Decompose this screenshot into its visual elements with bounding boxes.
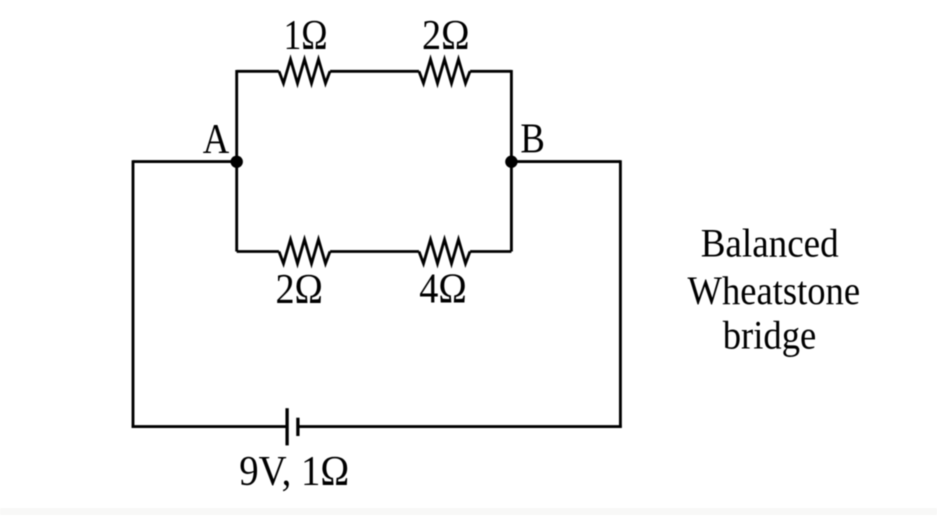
battery V1 short plate <box>296 418 299 436</box>
svg-text:B: B <box>520 117 545 163</box>
svg-text:Balanced: Balanced <box>701 221 839 266</box>
svg-text:bridge: bridge <box>723 312 817 357</box>
svg-text:A: A <box>203 117 230 163</box>
svg-text:1Ω: 1Ω <box>284 13 328 59</box>
resistor R1 1ohm zigzag <box>279 59 330 83</box>
resistor R4 4ohm zigzag <box>419 240 470 264</box>
wire inner right vertical <box>510 70 513 252</box>
svg-text:9V, 1Ω: 9V, 1Ω <box>239 449 349 495</box>
wire bottom rail middle segment <box>330 250 419 253</box>
wire outer left vertical <box>132 160 135 428</box>
wire outer right vertical <box>619 160 622 428</box>
wire top rail right segment <box>470 70 511 73</box>
wire top rail middle segment <box>330 70 419 73</box>
battery V1 long plate <box>285 408 288 445</box>
node A junction dot <box>231 156 243 168</box>
wire bottom rail left segment <box>237 250 279 253</box>
wire outer bottom left of battery <box>132 425 287 428</box>
node B junction dot <box>505 156 517 168</box>
wire bottom rail right segment <box>470 250 511 253</box>
svg-text:Wheatstone: Wheatstone <box>688 268 861 313</box>
wire node B to outer right <box>511 160 620 163</box>
resistor R3 2ohm zigzag <box>279 240 330 264</box>
wire top rail left segment <box>237 70 279 73</box>
svg-text:2Ω: 2Ω <box>422 13 470 59</box>
faint bottom artifact band <box>0 508 937 515</box>
svg-text:4Ω: 4Ω <box>419 267 467 313</box>
wire node A to outer left <box>133 160 237 163</box>
resistor R2 2ohm zigzag <box>419 59 470 83</box>
svg-text:2Ω: 2Ω <box>275 267 323 313</box>
wire outer bottom right of battery <box>298 425 622 428</box>
wire inner left vertical <box>235 70 238 252</box>
